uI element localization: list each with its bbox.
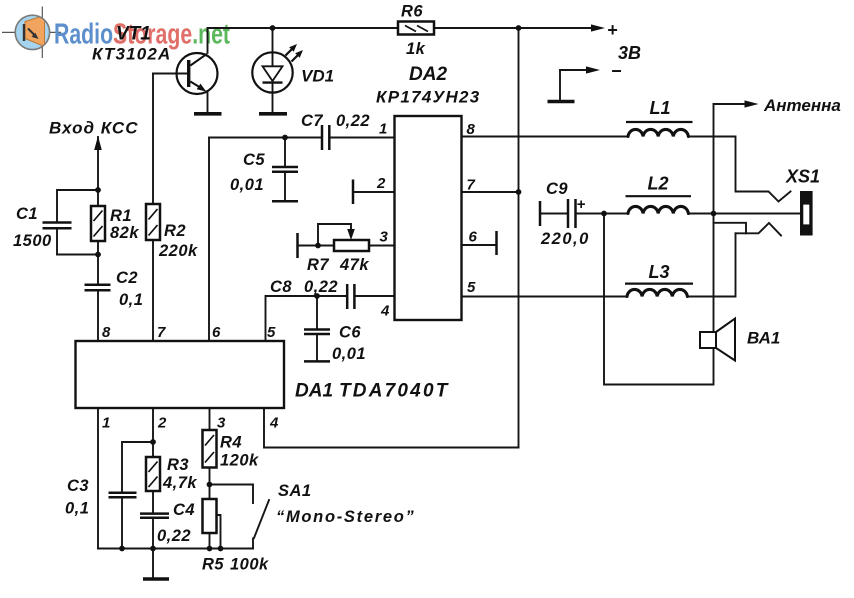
svg-text:С1: С1 — [16, 205, 38, 223]
svg-text:0,1: 0,1 — [65, 500, 89, 518]
svg-text:R2: R2 — [164, 222, 186, 240]
svg-text:3: 3 — [217, 415, 226, 432]
svg-text:R1: R1 — [110, 207, 132, 225]
svg-text:6: 6 — [469, 229, 478, 246]
svg-text:КР174УН23: КР174УН23 — [376, 88, 481, 107]
svg-text:5: 5 — [267, 324, 276, 341]
svg-text:0,22: 0,22 — [304, 278, 338, 296]
svg-text:0,01: 0,01 — [332, 345, 366, 363]
svg-text:XS1: XS1 — [785, 167, 820, 187]
svg-text:VD1: VD1 — [301, 67, 334, 86]
svg-text:R5: R5 — [202, 556, 224, 574]
svg-text:VT1: VT1 — [116, 24, 151, 45]
svg-text:0,22: 0,22 — [336, 112, 370, 130]
svg-text:1: 1 — [379, 121, 387, 138]
svg-text:ВА1: ВА1 — [747, 329, 780, 348]
svg-text:1500: 1500 — [13, 232, 52, 250]
svg-text:R4: R4 — [220, 434, 242, 452]
svg-text:Антенна: Антенна — [763, 96, 841, 115]
svg-text:SA1: SA1 — [278, 482, 312, 500]
svg-text:82k: 82k — [110, 224, 139, 242]
svg-text:+: + — [577, 196, 586, 213]
svg-text:С4: С4 — [173, 501, 195, 519]
svg-text:0,01: 0,01 — [230, 176, 264, 194]
svg-text:0,1: 0,1 — [119, 291, 143, 309]
svg-text:DA1: DA1 — [295, 381, 333, 402]
svg-text:120k: 120k — [220, 452, 259, 470]
svg-text:КТ3102А: КТ3102А — [92, 45, 172, 64]
svg-text:220,0: 220,0 — [540, 230, 590, 248]
svg-text:2: 2 — [376, 175, 386, 192]
svg-text:R6: R6 — [401, 3, 423, 21]
svg-text:2: 2 — [157, 415, 167, 432]
svg-text:С6: С6 — [339, 324, 361, 342]
svg-text:С3: С3 — [67, 477, 89, 495]
svg-text:4: 4 — [380, 303, 390, 320]
svg-text:8: 8 — [102, 324, 111, 341]
svg-text:С7: С7 — [301, 112, 323, 130]
svg-text:+: + — [607, 20, 618, 40]
svg-text:L1: L1 — [650, 98, 671, 118]
svg-text:47k: 47k — [339, 256, 369, 274]
svg-text:С8: С8 — [270, 278, 292, 296]
svg-text:4,7k: 4,7k — [162, 474, 197, 492]
svg-text:1: 1 — [102, 415, 110, 432]
svg-text:8: 8 — [467, 121, 476, 138]
svg-text:R7: R7 — [307, 256, 329, 274]
svg-text:TDA7040T: TDA7040T — [339, 381, 450, 402]
svg-text:7: 7 — [467, 177, 476, 194]
svg-text:С5: С5 — [243, 151, 265, 169]
svg-text:Вход КСС: Вход КСС — [49, 119, 138, 138]
svg-text:5: 5 — [467, 279, 476, 296]
svg-text:“Mono-Stereo”: “Mono-Stereo” — [276, 508, 415, 526]
svg-text:0,22: 0,22 — [157, 527, 191, 545]
svg-text:100k: 100k — [230, 556, 269, 574]
svg-text:3В: 3В — [618, 43, 641, 63]
svg-text:3: 3 — [380, 229, 389, 246]
svg-text:R3: R3 — [167, 456, 189, 474]
svg-text:4: 4 — [269, 415, 279, 432]
svg-text:С2: С2 — [116, 269, 138, 287]
svg-text:1k: 1k — [406, 40, 426, 58]
svg-text:220k: 220k — [158, 242, 198, 260]
svg-text:L3: L3 — [649, 262, 670, 282]
svg-text:6: 6 — [212, 324, 221, 341]
svg-text:L2: L2 — [648, 174, 669, 194]
svg-text:−: − — [611, 61, 622, 81]
svg-text:DA2: DA2 — [409, 64, 447, 85]
svg-text:С9: С9 — [546, 180, 568, 198]
svg-text:7: 7 — [157, 324, 166, 341]
